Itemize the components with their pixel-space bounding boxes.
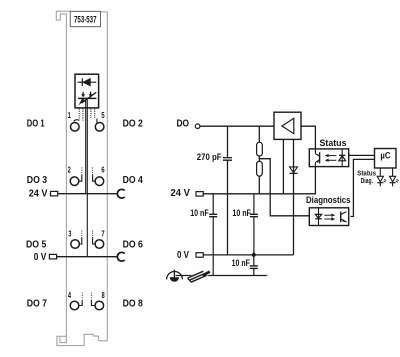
contact 4 [70, 301, 79, 310]
diode D1 freewheel [290, 167, 298, 173]
svg-text:DO: DO [177, 118, 190, 129]
contact 5 [95, 123, 104, 132]
24V wire (module) [58, 193, 118, 195]
svg-text:0 V: 0 V [177, 250, 189, 261]
0V terminal (schematic) [196, 253, 203, 258]
svg-text:24 V: 24 V [29, 188, 48, 199]
optocoupler U3 Diagnostics box [309, 208, 348, 226]
svg-text:DO 4: DO 4 [123, 175, 143, 186]
0V terminal (module) [49, 254, 56, 259]
wire DO line [200, 125, 274, 127]
contact 7 [95, 240, 104, 249]
channel labels [26, 119, 143, 310]
wire 270pF branch vertical [227, 126, 229, 255]
diode in LED box [78, 78, 97, 86]
optocoupler U2 Status box [309, 149, 348, 167]
junction 0V/C3/C4 [252, 253, 256, 257]
LED D2 (U2) [339, 149, 346, 167]
svg-text:5: 5 [101, 111, 105, 120]
capacitor C1 270 pF [223, 158, 232, 161]
24V terminal (module) [51, 191, 58, 196]
driver U1 triangle [282, 118, 294, 133]
internal bus double line [86, 99, 88, 257]
capacitor C2 10 nF [212, 194, 214, 215]
contact 6 [95, 177, 104, 186]
svg-text:DO 5: DO 5 [26, 239, 46, 250]
driver U1 box [274, 112, 301, 139]
svg-text:µC: µC [380, 150, 390, 160]
svg-text:3: 3 [68, 229, 72, 238]
svg-text:DO 6: DO 6 [123, 239, 143, 250]
contact hooks rows 2,3,4 (L-stubs) [79, 175, 95, 306]
wire 0V rail [203, 254, 293, 256]
wire U2 to µC [349, 154, 375, 156]
svg-text:DO 2: DO 2 [123, 119, 143, 130]
wire driver out to status [301, 126, 315, 149]
wire driver bottom left [282, 139, 284, 193]
contact 1 [71, 123, 80, 132]
contact hooks row1 [74, 119, 97, 123]
DO terminal [195, 124, 200, 129]
contact 8 [95, 301, 104, 310]
microcontroller U4 box [375, 149, 397, 169]
LED arrows symbol in LED box [78, 92, 96, 106]
wire divider branch to diagnostics [259, 159, 309, 216]
LED D3 (U3) [315, 208, 321, 226]
terminal number digits [68, 111, 106, 300]
0V bus connector arc [117, 252, 124, 261]
svg-text:4: 4 [68, 291, 72, 300]
module 753-537 outline [56, 11, 107, 345]
LED D4 status indicator [377, 168, 386, 186]
LED D5 diag indicator [390, 168, 399, 186]
phototransistor Q2 (U3) [341, 212, 347, 223]
24V bus connector arc [117, 189, 124, 198]
phototransistor Q1 (U2) [315, 149, 319, 167]
wire U3 to µC [350, 159, 374, 216]
label box 753-537 [70, 11, 100, 26]
svg-text:10 nF: 10 nF [190, 208, 209, 218]
svg-text:753-537: 753-537 [74, 14, 97, 25]
light arrows U2 [325, 154, 337, 162]
wire 24V rail [203, 167, 315, 194]
svg-text:Status: Status [320, 138, 347, 148]
svg-text:Diagnostics: Diagnostics [306, 195, 351, 205]
wire driver bottom right [293, 139, 295, 255]
resistor R2 [257, 161, 263, 176]
contact 2 [70, 177, 79, 186]
ground earth symbol [167, 270, 183, 282]
svg-text:7: 7 [101, 229, 105, 238]
dotted wire bundle under LED box [79, 109, 95, 121]
dotted stubs above hooks [82, 168, 93, 300]
LED indicator box [75, 74, 99, 108]
capacitor C4 10 nF [253, 255, 255, 266]
svg-text:DO 7: DO 7 [27, 298, 47, 309]
svg-text:2: 2 [68, 165, 72, 174]
svg-text:10 nF: 10 nF [232, 208, 251, 218]
svg-text:6: 6 [101, 165, 105, 174]
svg-text:8: 8 [102, 291, 106, 300]
contact 3 [71, 240, 80, 249]
svg-text:Status: Status [357, 168, 376, 177]
svg-text:270 pF: 270 pF [197, 152, 222, 162]
svg-text:0 V: 0 V [34, 252, 47, 263]
ground DIN rail contact symbol [187, 270, 212, 283]
wire resistor chain vertical [258, 126, 260, 142]
svg-text:DO 8: DO 8 [123, 298, 143, 309]
light arrows U3 [324, 214, 335, 221]
terminal circles: rows [70, 123, 104, 310]
MODULE [26, 11, 143, 345]
wire earth line [176, 275, 268, 277]
capacitor C3 10 nF [253, 194, 255, 215]
svg-text:Diag.: Diag. [361, 178, 373, 185]
svg-text:10 nF: 10 nF [232, 258, 251, 268]
svg-text:24 V: 24 V [171, 188, 191, 199]
svg-text:1: 1 [68, 111, 72, 120]
svg-text:DO 3: DO 3 [27, 175, 47, 186]
resistor R1 [257, 142, 263, 156]
svg-text:DO 1: DO 1 [27, 119, 45, 130]
24V terminal (schematic) [196, 192, 203, 197]
0V wire (module) [57, 256, 118, 258]
